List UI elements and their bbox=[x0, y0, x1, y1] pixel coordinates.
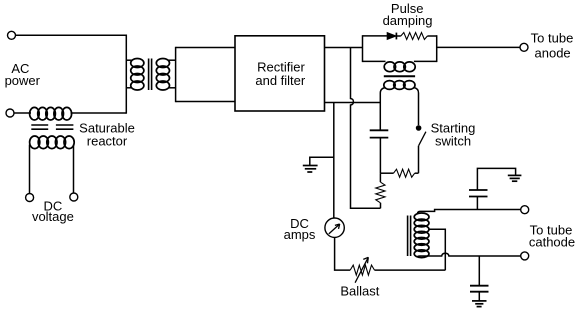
block rectifier and filter bbox=[235, 36, 325, 111]
label Saturable reactor bbox=[79, 121, 135, 149]
inductor saturable reactor top winding bbox=[30, 107, 72, 120]
svg-text:reactor: reactor bbox=[87, 134, 128, 149]
core saturable reactor bbox=[31, 125, 73, 129]
capacitor C1 bbox=[370, 130, 389, 137]
label To tube anode bbox=[531, 30, 574, 60]
wire bbox=[176, 101, 235, 103]
svg-text:and filter: and filter bbox=[255, 73, 306, 88]
svg-text:amps: amps bbox=[284, 227, 316, 242]
transformer T1 core bbox=[149, 59, 152, 91]
wire bbox=[29, 145, 31, 194]
transformer T1 secondary winding bbox=[156, 59, 169, 91]
wire bbox=[175, 47, 177, 102]
wire bbox=[351, 48, 381, 209]
wire bbox=[429, 229, 446, 270]
wire bbox=[335, 237, 351, 270]
ground bbox=[303, 157, 334, 172]
wire bbox=[418, 146, 420, 174]
transformer T3 winding bbox=[414, 213, 429, 258]
resistor pulse damping bbox=[401, 33, 428, 40]
svg-text:To tube: To tube bbox=[531, 30, 574, 45]
terminal to tube cathode top bbox=[521, 206, 529, 214]
transformer T3 core bbox=[408, 216, 411, 257]
diode pulse damping bbox=[387, 33, 396, 40]
wire bbox=[325, 47, 363, 49]
wire bbox=[437, 46, 520, 48]
wire bbox=[350, 265, 374, 275]
wire bbox=[414, 88, 419, 126]
svg-text:damping: damping bbox=[383, 13, 433, 28]
node switch contact bbox=[416, 125, 422, 131]
svg-text:switch: switch bbox=[435, 134, 471, 149]
wire bbox=[363, 60, 386, 62]
ground bbox=[472, 301, 487, 307]
label Starting switch bbox=[431, 121, 476, 149]
svg-text:cathode: cathode bbox=[529, 235, 575, 250]
wire bbox=[380, 172, 393, 174]
wire bbox=[73, 145, 75, 194]
wire bbox=[379, 173, 381, 182]
terminal to tube anode bbox=[520, 43, 528, 51]
wire bbox=[176, 47, 235, 49]
transformer T2 primary winding bbox=[384, 62, 415, 72]
wire bbox=[325, 102, 381, 104]
label DC voltage bbox=[32, 199, 74, 224]
wire bbox=[418, 253, 521, 257]
wire bbox=[477, 168, 515, 190]
wire bbox=[375, 269, 446, 271]
wire bbox=[333, 103, 335, 219]
capacitor C4 bbox=[470, 286, 489, 292]
resistor starting series bbox=[394, 169, 415, 177]
wire bbox=[126, 59, 132, 61]
wire bbox=[415, 172, 419, 174]
wire bbox=[418, 210, 521, 214]
wire bbox=[71, 112, 127, 114]
wire bbox=[168, 59, 175, 61]
wire bbox=[379, 138, 381, 174]
label To tube cathode bbox=[529, 223, 575, 250]
wire bbox=[380, 88, 385, 130]
ground bbox=[508, 175, 522, 181]
wire bbox=[126, 87, 132, 89]
transformer T2 core bbox=[384, 75, 415, 77]
meter DC amps bbox=[325, 218, 344, 237]
terminal DC voltage left bbox=[26, 194, 34, 202]
wire bbox=[168, 87, 175, 89]
wire bbox=[478, 256, 480, 286]
wire bbox=[363, 35, 388, 37]
wire bbox=[436, 35, 438, 62]
transformer T1 primary winding bbox=[131, 59, 144, 91]
svg-text:voltage: voltage bbox=[32, 209, 74, 224]
wire bbox=[427, 35, 436, 37]
terminal AC input top bbox=[8, 31, 16, 39]
label DC amps bbox=[284, 216, 316, 242]
label Rectifier and filter bbox=[255, 60, 306, 88]
wire bbox=[380, 203, 382, 209]
label AC power bbox=[5, 61, 41, 88]
wire bbox=[478, 292, 480, 301]
wire bbox=[14, 112, 31, 114]
resistor shunt bbox=[376, 182, 385, 203]
inductor saturable reactor control winding bbox=[30, 136, 75, 149]
transformer T2 secondary winding bbox=[384, 81, 415, 90]
svg-text:power: power bbox=[5, 73, 41, 88]
ballast arrow bbox=[355, 257, 368, 282]
terminal AC input bottom bbox=[6, 109, 14, 117]
svg-text:Ballast: Ballast bbox=[340, 284, 379, 299]
wire bbox=[414, 60, 437, 62]
switch blade bbox=[419, 132, 426, 146]
label Ballast bbox=[340, 284, 379, 299]
label Pulse damping bbox=[383, 1, 433, 28]
terminal DC voltage right bbox=[70, 193, 78, 201]
wire bbox=[362, 35, 364, 62]
terminal to tube cathode bottom bbox=[521, 252, 529, 260]
wire bbox=[125, 35, 127, 114]
wire bbox=[396, 35, 400, 37]
wire bbox=[476, 197, 478, 210]
svg-text:anode: anode bbox=[535, 45, 571, 60]
wire bbox=[16, 34, 127, 36]
capacitor C3 bbox=[469, 190, 488, 197]
